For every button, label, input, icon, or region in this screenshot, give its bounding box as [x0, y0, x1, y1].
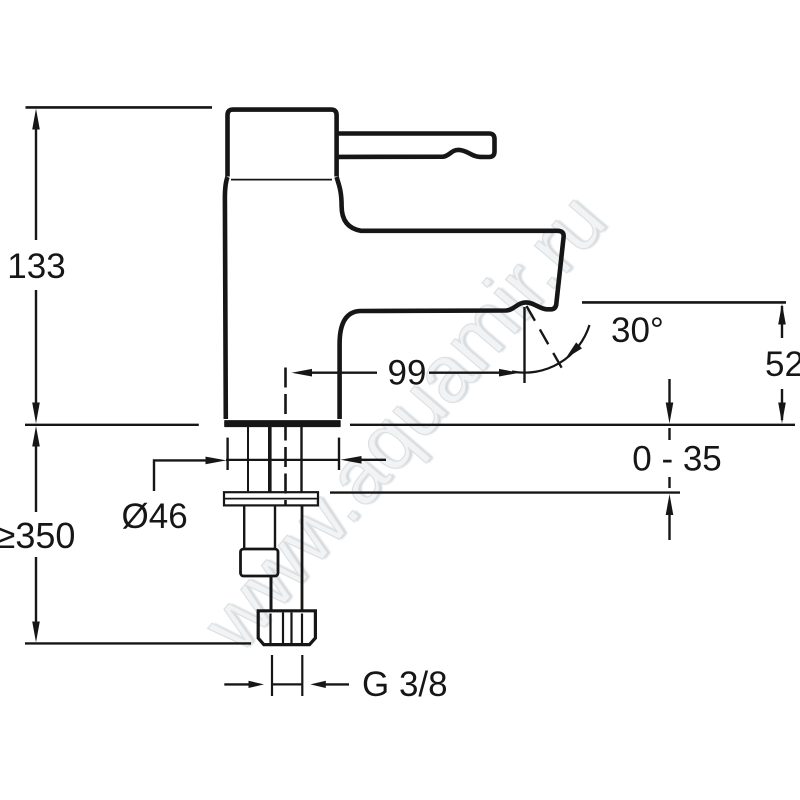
- dimension 133 down arrow: [32, 403, 40, 424]
- angle arc 30 degrees: [512, 325, 590, 373]
- top height reference line: [26, 106, 213, 109]
- dimension 52 line upper segment: [781, 306, 783, 338]
- dimension 99 right arrow: [499, 369, 520, 377]
- G3/8 left arrow: [249, 681, 265, 688]
- diameter 46 right arrow: [341, 456, 362, 464]
- svg-text:133: 133: [7, 247, 65, 286]
- dimension 99 line left segment: [305, 372, 377, 374]
- valve block: [241, 549, 279, 576]
- diameter 46 line across tailpieces: [226, 459, 340, 461]
- dashed centerline of tailpiece: [284, 368, 287, 507]
- diameter 46 leader arrow: [206, 457, 227, 465]
- G3/8 right arrow: [310, 681, 326, 688]
- dimension 133 up arrow: [32, 109, 40, 130]
- dimension >=350 line upper segment: [35, 443, 37, 512]
- dimension 133 line upper segment: [35, 126, 37, 240]
- valve stem rod: [270, 576, 273, 611]
- supply pipe upper line: [300, 427, 302, 492]
- tailpiece tube thick line: [268, 427, 272, 492]
- cap/body joint line: [231, 179, 332, 181]
- svg-text:≥350: ≥350: [0, 515, 75, 556]
- nut knurl line 1: [269, 614, 271, 644]
- supply pipe lower line: [301, 506, 304, 612]
- knurled connection nut: [258, 611, 315, 645]
- spout outlet 30 degree dashed ray: [527, 306, 564, 371]
- dimension 0-35 upper outside arrow shaft: [668, 379, 670, 404]
- dimension 52 up arrow: [778, 304, 786, 325]
- nut knurl line 3: [290, 613, 292, 644]
- G3/8 left arrow shaft: [224, 683, 250, 685]
- dimension >=350 down arrow: [32, 622, 40, 643]
- G3/8 left extension tick: [271, 655, 273, 696]
- dimension 0-35 tick above text: [668, 428, 670, 440]
- dimension 0-35 upper outside arrow: [666, 403, 674, 424]
- G3/8 right arrow shaft: [324, 683, 349, 685]
- base width right extension tick: [338, 438, 340, 470]
- spout outlet vertical reference line: [523, 307, 525, 383]
- dimension 99 line right segment: [429, 372, 502, 374]
- deck top reference line left segment: [25, 424, 199, 426]
- deck top reference line right segment: [350, 424, 795, 426]
- dimension 52 line lower segment: [781, 389, 783, 420]
- deck bottom reference line: [330, 491, 680, 493]
- dimension >=350 line lower segment: [35, 557, 37, 626]
- dimension 52 down arrow: [778, 403, 786, 424]
- faucet handle lever: [336, 134, 495, 158]
- faucet handle cap: [228, 110, 337, 177]
- arc arrowhead: [566, 342, 583, 358]
- G3/8 line between ticks: [272, 683, 302, 685]
- valve tube below flange right: [274, 506, 276, 550]
- diameter 46 right arrow shaft: [358, 459, 386, 461]
- nut knurl line 4: [301, 614, 303, 644]
- svg-text:52: 52: [765, 345, 800, 384]
- G3/8 right extension tick: [301, 655, 303, 696]
- dimension >=350 up arrow: [32, 426, 40, 447]
- nut knurl line 2: [282, 613, 284, 644]
- dimension 99 left arrow: [292, 369, 313, 377]
- svg-text:99: 99: [388, 354, 427, 393]
- top reference line at spout outlet level: [582, 301, 786, 304]
- tailpiece tube left line: [247, 427, 249, 492]
- svg-text:Ø46: Ø46: [122, 497, 188, 536]
- flange mid line: [224, 498, 318, 500]
- svg-text:0 - 35: 0 - 35: [632, 440, 722, 479]
- dimension 0-35 tick below text: [668, 477, 670, 488]
- lower clearance reference line: [25, 642, 251, 644]
- valve tube below flange left: [243, 506, 245, 550]
- dimension 0-35 lower outside arrow: [666, 494, 674, 515]
- svg-text:30°: 30°: [611, 311, 664, 350]
- faucet body bottom thick edge: [224, 420, 340, 427]
- svg-text:G 3/8: G 3/8: [362, 665, 448, 704]
- diameter 46 leader: [154, 460, 208, 491]
- mounting flange: [224, 492, 318, 505]
- dimension 0-35 lower outside arrow shaft: [668, 513, 670, 540]
- base width left extension tick: [226, 438, 228, 470]
- faucet body and spout outline: [224, 177, 563, 424]
- dimension 133 line lower segment: [35, 290, 37, 406]
